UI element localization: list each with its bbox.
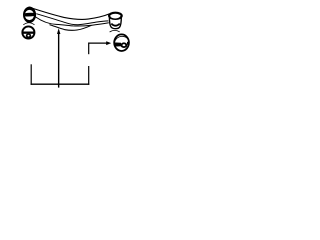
right lower bushing inner ring	[121, 42, 128, 48]
right leader vertical upper	[88, 43, 90, 55]
right lower bushing right band	[127, 42, 130, 45]
left lower bushing mid band	[21, 32, 36, 34]
left eye U1 dark body	[23, 7, 36, 23]
arm top flange ridge	[36, 14, 108, 25]
arm mid contour line	[36, 17, 109, 26]
left lower bushing inner ring	[26, 34, 31, 38]
arm bottom edge (dip)	[50, 25, 92, 31]
left eye ball band	[25, 13, 34, 17]
right lower bushing left band	[113, 42, 121, 46]
right leader horizontal	[89, 42, 107, 44]
right eye bore	[110, 14, 120, 19]
right eye rim	[109, 13, 122, 19]
left lower bushing back rim	[23, 23, 34, 25]
middle leader arrowhead	[57, 28, 60, 34]
left lower bushing body	[22, 26, 34, 38]
right eye body	[109, 17, 121, 29]
right eye inner bottom arc	[111, 24, 120, 26]
right lower bushing back rim	[110, 30, 120, 32]
bracket left vertical	[30, 64, 32, 85]
right leader arrowhead	[106, 41, 111, 45]
middle leader line	[58, 34, 60, 88]
right lower bushing outer	[114, 34, 129, 51]
arm top edge	[29, 7, 110, 19]
bracket bottom line	[31, 83, 90, 85]
left eye bore (white)	[25, 10, 34, 20]
right lower bushing top face rim	[114, 36, 128, 42]
right bracket vertical lower	[88, 66, 90, 85]
